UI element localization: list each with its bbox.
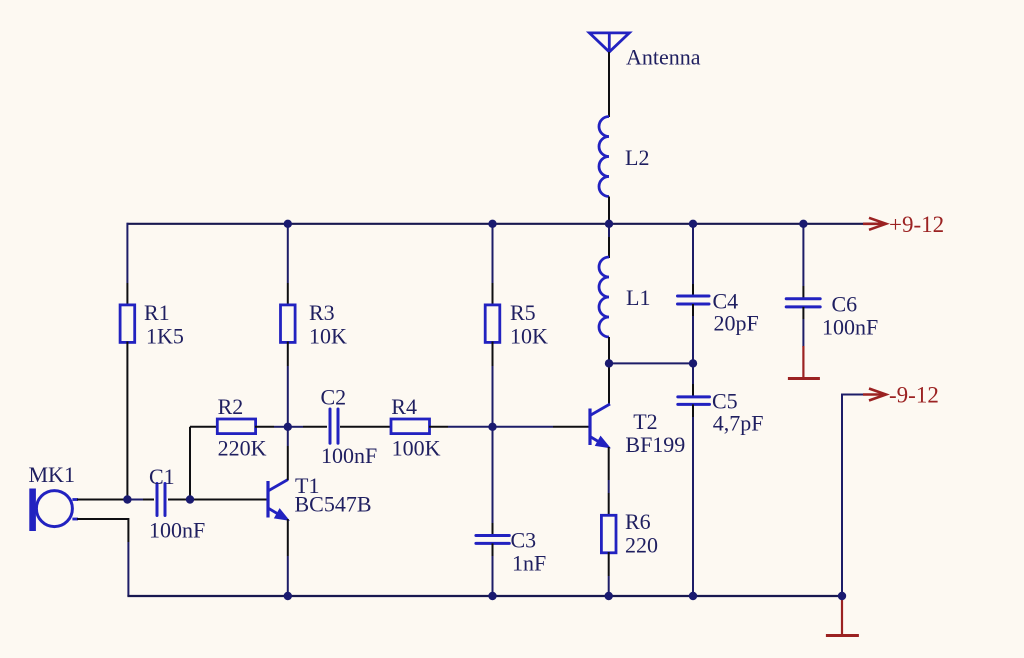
resistor R4: [391, 419, 430, 434]
wire tank node to C4 node: [609, 362, 693, 364]
power arrow -9-12: [863, 389, 886, 401]
wire R5 to node C: [492, 366, 494, 427]
wire rail down to C4: [692, 223, 694, 284]
svg-text:R4: R4: [391, 394, 417, 419]
pin T2 collector up to tank node: [608, 363, 610, 404]
pin R6 bottom: [608, 552, 610, 576]
junction 0V at R6: [605, 592, 613, 600]
svg-text:BC547B: BC547B: [295, 492, 372, 517]
resistor R1: [120, 305, 135, 343]
pin C3 top: [492, 523, 494, 536]
pin L1 top: [608, 237, 610, 258]
transistor T1: [268, 480, 289, 521]
svg-text:-9-12: -9-12: [889, 383, 939, 408]
pin C1 right to node D: [168, 499, 190, 501]
pin R2 left: [190, 426, 218, 428]
wire tank row down to C5: [692, 363, 694, 384]
svg-text:100nF: 100nF: [149, 518, 205, 543]
pin R4 left: [364, 426, 392, 428]
pin R4 right: [429, 426, 448, 428]
wire R6 to 0V rail: [608, 576, 610, 596]
inductor L1: [599, 257, 609, 337]
svg-text:R3: R3: [309, 300, 335, 325]
pin C1 left: [143, 499, 154, 501]
pin C2 right: [340, 426, 364, 428]
pin R5 top: [492, 283, 494, 306]
pin R2 right: [255, 426, 274, 428]
svg-text:Antenna: Antenna: [626, 45, 701, 70]
capacitor C4: [678, 296, 710, 304]
resistor R6: [601, 515, 616, 553]
pin T2 base: [553, 426, 589, 428]
wire 0V bottom rail: [127, 595, 842, 597]
inductor L2: [599, 117, 609, 197]
pin R1 top: [126, 283, 128, 306]
wire L2 pin to +9-12 rail: [608, 197, 610, 224]
pin L1 bottom to tank node: [608, 337, 610, 363]
svg-text:100K: 100K: [392, 436, 441, 461]
wire T2 emitter to R6 pin: [608, 480, 610, 493]
capacitor C5: [678, 397, 710, 405]
wire node C down to C3: [492, 427, 494, 523]
wire R1 to node A: [126, 366, 128, 500]
pin MK1 bottom return: [77, 519, 128, 542]
wire C6 to ground: [802, 319, 804, 347]
junction node B: [284, 423, 292, 431]
svg-text:R5: R5: [510, 300, 536, 325]
pin R3 top: [287, 283, 289, 306]
resistor R3: [281, 305, 296, 343]
junction rail at C6: [799, 220, 807, 228]
capacitor C2: [330, 409, 338, 443]
wire rail down to R5: [492, 223, 494, 283]
junction 0V at T1 emitter: [284, 592, 292, 600]
pin C2 left: [303, 426, 327, 428]
svg-text:R2: R2: [218, 394, 244, 419]
wire R3 to node B: [287, 366, 289, 427]
wire MK1 bottom to 0V rail: [127, 542, 129, 596]
svg-text:C3: C3: [511, 528, 537, 553]
pin T1 base from node D: [190, 499, 267, 501]
svg-text:C2: C2: [321, 385, 347, 410]
wire node C to T2 base pin: [493, 426, 554, 428]
ground at C6: [788, 346, 820, 379]
transistor T2: [590, 404, 610, 448]
wire R4 to node C: [448, 426, 493, 428]
wire node D up to R2: [189, 427, 191, 500]
wire node B to T1 collector pin: [287, 427, 289, 446]
wire rail down to R3: [287, 223, 289, 283]
capacitor C1: [157, 484, 165, 516]
pin T1 collector: [287, 446, 289, 480]
power arrow +9-12: [863, 218, 886, 230]
pin C6 top: [802, 286, 804, 299]
ground main: [826, 598, 859, 636]
microphone MK1: [29, 489, 78, 532]
resistor R2: [217, 419, 255, 434]
junction 0V at ground: [838, 592, 846, 600]
junction rail at R5: [488, 220, 496, 228]
svg-text:10K: 10K: [510, 324, 548, 349]
junction rail at L2: [605, 220, 613, 228]
wire node B to C2 pin: [288, 426, 303, 428]
svg-text:100nF: 100nF: [321, 443, 377, 468]
wire rail down to R1: [126, 223, 128, 283]
svg-text:T2: T2: [633, 409, 657, 434]
pin R5 bottom: [492, 342, 494, 367]
wire T1 emitter to 0V rail: [287, 556, 289, 596]
svg-text:1K5: 1K5: [146, 324, 184, 349]
junction 0V at C5: [689, 592, 697, 600]
pin R3 bottom: [287, 342, 289, 367]
svg-text:100nF: 100nF: [822, 315, 878, 340]
junction tank at L1: [605, 359, 613, 367]
svg-text:220K: 220K: [218, 436, 267, 461]
svg-text:1nF: 1nF: [512, 551, 546, 576]
svg-text:L2: L2: [625, 145, 649, 170]
junction rail at C4: [689, 220, 697, 228]
junction 0V at C3: [488, 592, 496, 600]
svg-text:R6: R6: [625, 509, 651, 534]
svg-text:10K: 10K: [309, 324, 347, 349]
junction tank at C4: [689, 359, 697, 367]
wire C4 to tank row: [692, 316, 694, 363]
wire C5 to 0V rail: [692, 417, 694, 596]
pin R6 top: [608, 493, 610, 516]
svg-text:L1: L1: [626, 285, 650, 310]
wire rail down to L1: [608, 223, 610, 237]
pin MK1 top to node A: [77, 499, 127, 501]
pin R1 bottom: [126, 342, 128, 367]
wire antenna pin to L2 pin: [608, 52, 610, 117]
pin C4 bottom: [692, 304, 694, 316]
pin C5 bottom: [692, 404, 694, 417]
junction rail at R3: [284, 220, 292, 228]
svg-text:C6: C6: [832, 292, 858, 317]
pin C3 bottom: [492, 543, 494, 556]
capacitor C3: [476, 536, 509, 544]
wire -9-12 riser: [842, 395, 866, 597]
wire rail down to C6: [802, 223, 804, 286]
svg-text:C1: C1: [149, 464, 175, 489]
wire C3 to 0V rail: [492, 556, 494, 596]
svg-text:+9-12: +9-12: [889, 212, 944, 237]
pin C5 top: [692, 384, 694, 397]
wire +9-12 rail: [127, 223, 872, 225]
junction node C: [488, 423, 496, 431]
svg-text:220: 220: [625, 533, 658, 558]
wire R2 to node B: [274, 426, 288, 428]
pin C6 bottom: [802, 307, 804, 319]
junction node D at R2: [186, 495, 194, 503]
antenna symbol: [589, 33, 629, 52]
resistor R5: [485, 305, 500, 343]
wire node A to C1 pin: [127, 499, 143, 501]
pin C4 top: [692, 284, 694, 296]
capacitor C6: [786, 299, 820, 307]
junction node A at R1: [123, 495, 131, 503]
svg-text:MK1: MK1: [29, 462, 75, 487]
svg-text:BF199: BF199: [625, 432, 685, 457]
pin T1 emitter: [287, 519, 289, 556]
pin T2 emitter: [608, 447, 610, 480]
svg-text:R1: R1: [144, 300, 170, 325]
svg-text:20pF: 20pF: [714, 311, 759, 336]
svg-text:4,7pF: 4,7pF: [713, 411, 764, 436]
